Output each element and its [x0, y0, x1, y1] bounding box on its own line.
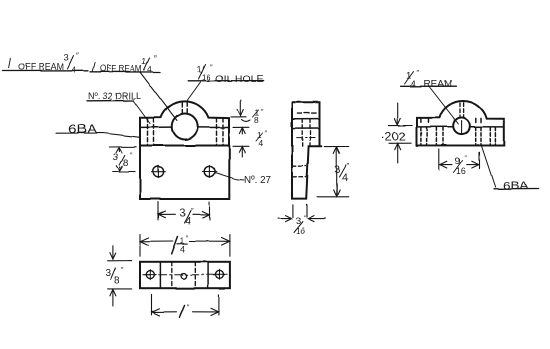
side view split lines: [292, 119, 320, 129]
svg-text:OFF REAM: OFF REAM: [100, 63, 142, 74]
svg-text:″: ″: [210, 62, 213, 71]
plan view right hole: [214, 269, 226, 279]
front view left stud hole hidden lines: [148, 118, 154, 145]
dimension 1/8 right of cap: [231, 100, 250, 121]
svg-text:4: 4: [185, 215, 191, 227]
dimension 3/4 front bottom: [158, 202, 209, 220]
svg-text:3: 3: [64, 52, 69, 63]
label 6BA right view with leader: [482, 146, 496, 187]
svg-text:″: ″: [465, 155, 468, 162]
side view base hole hidden lines: [292, 166, 306, 177]
svg-text:4: 4: [342, 172, 348, 184]
dimension 3/8 plan left: [108, 245, 132, 306]
svg-text:16: 16: [456, 166, 466, 176]
svg-text:″: ″: [261, 109, 264, 116]
svg-text:16: 16: [202, 73, 211, 82]
plan view centre oil hole: [181, 273, 187, 279]
label 1 OFF REAM 3/4: [3, 56, 88, 71]
front view right base hole: [203, 166, 217, 178]
front view right stud hole hidden lines: [217, 118, 224, 145]
dimension 3/8 front left: [109, 147, 136, 172]
svg-text:6BA: 6BA: [68, 122, 97, 136]
svg-text:″: ″: [154, 54, 157, 63]
svg-text:4: 4: [411, 79, 417, 90]
front view split line right: [198, 126, 230, 128]
right view bore: [453, 118, 470, 135]
dimension 9/16 right view: [439, 149, 479, 170]
label No.32 DRILL: [87, 100, 134, 102]
label 6BA left: [56, 133, 140, 137]
svg-text:″: ″: [121, 267, 124, 274]
plan view left hole: [145, 270, 157, 280]
side view oil passage hidden line: [297, 112, 318, 114]
front view bore circle: [172, 114, 198, 140]
dimension 1 plan bottom: [152, 294, 219, 315]
label No.27 with leader: [215, 173, 244, 181]
svg-text:4: 4: [180, 244, 185, 254]
side view outline: [292, 102, 321, 198]
svg-text:OIL HOLE: OIL HOLE: [216, 73, 264, 84]
svg-text:3: 3: [113, 152, 118, 163]
plan view step lines: [160, 262, 208, 288]
svg-text:8: 8: [123, 157, 128, 168]
front view split line left: [140, 126, 172, 128]
svg-text:″: ″: [347, 162, 350, 171]
front view base block: [140, 146, 229, 200]
svg-text:8: 8: [114, 276, 120, 287]
right view split line: [417, 126, 504, 128]
svg-text:″: ″: [130, 152, 133, 159]
svg-text:Nº. 32 DRILL: Nº. 32 DRILL: [88, 91, 141, 101]
svg-text:16: 16: [296, 226, 306, 236]
front view oil hole hidden lines: [182, 102, 187, 113]
svg-text:4: 4: [72, 66, 77, 75]
svg-text:″: ″: [186, 235, 189, 242]
svg-text:″: ″: [191, 206, 194, 215]
svg-text:/: /: [8, 55, 13, 70]
plan view outline: [140, 262, 230, 288]
plan view hidden lines: [172, 262, 196, 288]
svg-text:″: ″: [76, 52, 79, 61]
dimension 1-1/4 plan top: [140, 235, 230, 257]
leader No.32 drill: [134, 101, 151, 124]
dimension 3/4 side view: [317, 147, 349, 197]
svg-text:8: 8: [254, 115, 259, 125]
side view stud centre cross line: [297, 137, 317, 139]
svg-text:Nº. 27: Nº. 27: [244, 175, 271, 186]
dimension 1/4 right of cap: [233, 127, 249, 157]
front view left base hole: [152, 166, 166, 178]
svg-text:″: ″: [265, 131, 268, 138]
svg-text:OFF REAM: OFF REAM: [18, 61, 64, 72]
plan view centreline: [143, 274, 227, 276]
right view cap outline: [417, 101, 504, 145]
svg-text:1: 1: [142, 56, 147, 66]
svg-text:·202: ·202: [381, 130, 407, 144]
svg-text:3: 3: [105, 269, 111, 280]
svg-text:4: 4: [147, 64, 152, 74]
svg-text:6BA: 6BA: [503, 180, 529, 192]
dimension .202: [389, 103, 412, 163]
svg-text:REAM: REAM: [424, 79, 453, 90]
right view oil hole hidden lines: [460, 103, 464, 117]
svg-text:″: ″: [187, 303, 190, 312]
label 1/4 REAM right view: [401, 85, 457, 87]
leader from 1/4 ream to bore: [140, 73, 177, 121]
leader 1/4 ream to bore: [430, 87, 459, 124]
svg-text:/: /: [92, 60, 96, 75]
front view cap outline: [140, 101, 229, 145]
label 1 OFF REAM 1/4: [90, 58, 160, 72]
side view stud hole hidden lines: [302, 119, 310, 146]
right view bore centreline: [461, 121, 463, 134]
label 1/16 OIL HOLE: [188, 80, 263, 82]
right view stud holes hidden lines: [421, 118, 481, 122]
svg-text:″: ″: [417, 70, 420, 77]
svg-text:3: 3: [335, 164, 341, 176]
dimension 3/16 side view bottom: [279, 204, 326, 221]
leader oil hole: [187, 82, 201, 101]
svg-text:4: 4: [259, 138, 264, 148]
